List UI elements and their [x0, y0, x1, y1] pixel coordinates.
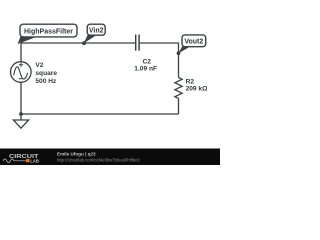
- svg-text:R2: R2: [186, 79, 195, 86]
- svg-text:V2: V2: [35, 62, 43, 69]
- svg-text:http://circuitlab.com/c/d4e8bw: http://circuitlab.com/c/d4e8bw7b5uu9/hfi…: [57, 157, 141, 162]
- svg-text:500 Hz: 500 Hz: [35, 78, 57, 85]
- svg-text:Vout2: Vout2: [184, 39, 203, 46]
- svg-text:Vin2: Vin2: [89, 28, 104, 35]
- svg-text:1.09 nF: 1.09 nF: [134, 65, 157, 72]
- svg-text:square: square: [35, 70, 57, 77]
- svg-text:LAB: LAB: [30, 158, 39, 163]
- svg-text:Emile Ufogu | q23: Emile Ufogu | q23: [57, 152, 96, 157]
- svg-text:HighPassFilter: HighPassFilter: [24, 28, 73, 35]
- svg-text:C2: C2: [143, 58, 152, 65]
- svg-text:209 kΩ: 209 kΩ: [186, 86, 209, 93]
